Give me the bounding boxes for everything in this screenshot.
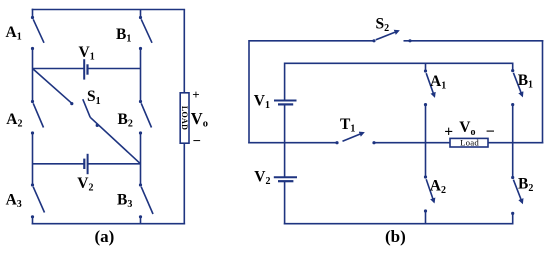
switch A1 (31, 16, 44, 50)
wire: fig-a middle rail top stub (140, 10, 142, 19)
wire: fig-b bottom bus (284, 223, 514, 225)
battery V2 positive plate (87, 154, 89, 174)
wire: fig-a middle rail B2 to B3 (140, 133, 142, 185)
svg-text:+: + (192, 87, 199, 102)
switch B1 (139, 16, 152, 50)
svg-text:(a): (a) (95, 227, 115, 246)
battery V1 positive plate (274, 100, 297, 102)
wire: fig-a left rail bottom stub (32, 217, 34, 225)
svg-text:A2: A2 (430, 177, 446, 196)
wire: fig-b A leg middle section (425, 105, 427, 177)
switch B1 (fig b) (511, 69, 522, 106)
wire: fig-a V2 branch right segment (88, 163, 141, 165)
battery V1 negative plate (86, 64, 88, 74)
svg-text:−: − (193, 134, 201, 150)
svg-text:LOAD: LOAD (180, 106, 189, 130)
wire: fig-b outer left rail (248, 40, 250, 144)
wire: fig-b outer right rail (542, 40, 544, 144)
battery V2 negative plate (83, 159, 85, 169)
svg-text:V2: V2 (254, 168, 270, 187)
svg-text:V2: V2 (77, 175, 93, 194)
switch B3 (139, 183, 153, 218)
battery V1 positive plate (83, 59, 85, 79)
wire: fig-a middle rail B1 to B2 (140, 49, 142, 102)
battery V2 negative plate (278, 180, 293, 182)
wire: fig-a left rail A2 to A3 (32, 133, 34, 185)
svg-text:V1: V1 (79, 44, 95, 63)
switch T1 (335, 133, 375, 145)
wire: fig-a V2 branch left segment (33, 163, 85, 165)
svg-text:A1: A1 (6, 24, 22, 43)
svg-text:V1: V1 (254, 92, 270, 111)
wire: fig-b outer top bus right of S2 (404, 40, 544, 42)
svg-text:B2: B2 (118, 111, 133, 130)
switch S2 (372, 31, 411, 43)
wire: fig-b B leg middle section (512, 105, 514, 178)
load resistor fig-b (450, 138, 488, 147)
svg-text:T1: T1 (340, 116, 355, 135)
wire: fig-a middle rail bottom stub (140, 217, 142, 225)
svg-text:+: + (444, 123, 453, 140)
svg-text:(b): (b) (385, 227, 406, 246)
svg-text:B3: B3 (117, 191, 132, 210)
switch A2 (31, 100, 44, 135)
svg-text:S2: S2 (376, 15, 390, 34)
wire: fig-a diagonal lower segment (90, 117, 140, 164)
load resistor fig-a (180, 93, 189, 143)
battery V1 negative plate (278, 103, 293, 105)
wire: fig-a top bus (32, 9, 185, 11)
wire: fig-a V1 branch right segment (88, 68, 141, 70)
wire: fig-b B leg bottom stub (512, 213, 514, 224)
battery V2 positive plate (274, 176, 297, 178)
label LOAD (rotated, in load box) (180, 106, 189, 130)
svg-text:Vo: Vo (191, 109, 208, 130)
wire: fig-a V1 branch left segment (33, 68, 85, 70)
wire: fig-b inner left rail V1 to V2 (284, 104, 286, 177)
wire: fig-b B leg top stub (512, 63, 514, 71)
svg-text:A2: A2 (6, 111, 22, 130)
wire: fig-b inner left rail below V2 (284, 181, 286, 224)
switch B2 (fig b) (511, 176, 522, 215)
svg-text:B2: B2 (518, 176, 533, 195)
switch S1 (70, 99, 99, 127)
switch A2 (fig b) (424, 175, 434, 212)
switch A3 (31, 183, 45, 218)
svg-text:A3: A3 (6, 191, 22, 210)
svg-text:Load: Load (460, 138, 479, 148)
svg-text:S1: S1 (87, 88, 101, 107)
wire: fig-a left rail A1 to A2 (32, 49, 34, 102)
wire: fig-b A leg top stub (425, 63, 427, 71)
wire: fig-a bottom bus (32, 223, 185, 225)
wire: fig-b mid bus from outer-left to T1 (248, 142, 337, 144)
wire: fig-a diagonal upper segment (33, 69, 72, 104)
wire: fig-a right rail (183, 10, 185, 225)
wire: fig-b inner top bus (285, 62, 514, 64)
wire: fig-b outer top bus left of S2 (249, 40, 374, 42)
switch A1 (fig b) (424, 69, 435, 106)
wire: fig-b A leg bottom stub (425, 211, 427, 225)
svg-text:B1: B1 (518, 72, 533, 91)
wire: fig-b inner left rail above V1 (284, 63, 286, 101)
wire: fig-b mid bus from T1 to load (374, 142, 450, 144)
wire: fig-a left rail top stub (32, 9, 34, 18)
svg-text:−: − (486, 123, 495, 140)
svg-text:Vo: Vo (459, 119, 475, 138)
switch B2 (139, 100, 152, 135)
wire: fig-b mid bus from load to outer right rail (488, 142, 543, 144)
svg-text:B1: B1 (116, 26, 131, 45)
svg-text:A1: A1 (430, 73, 446, 92)
